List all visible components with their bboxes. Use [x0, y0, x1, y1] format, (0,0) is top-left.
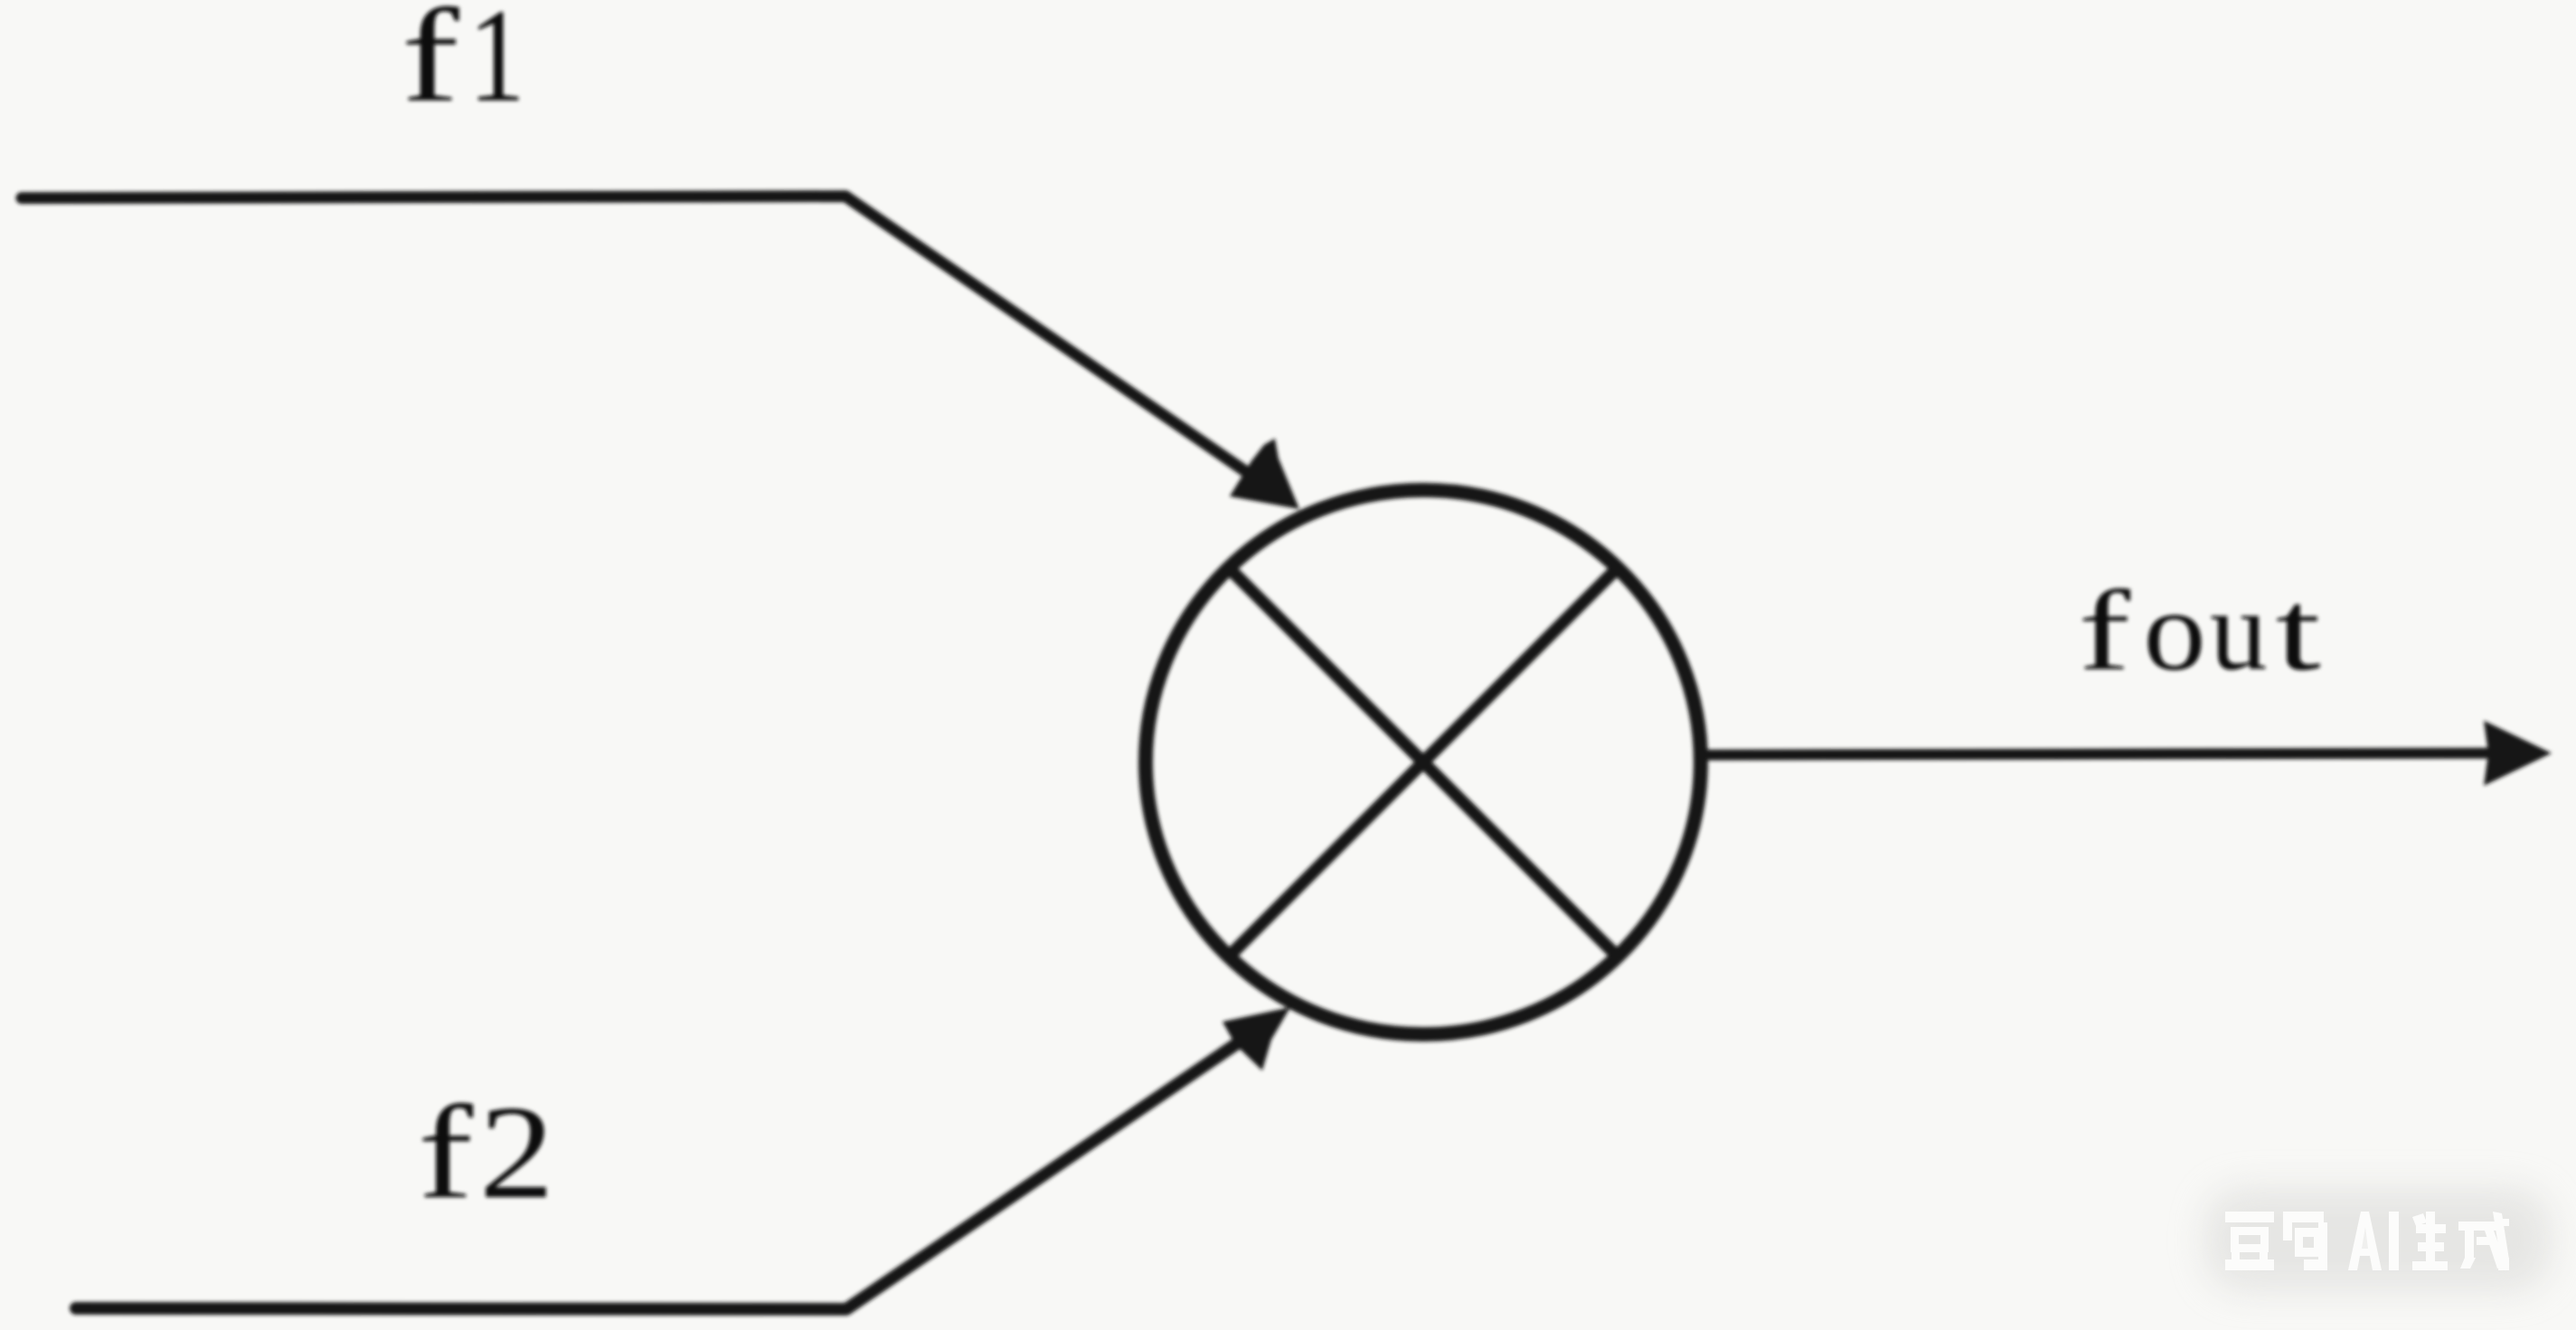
- wire f2 input (horizontal + diagonal into mixer): [76, 1034, 1250, 1309]
- watermark 豆包AI生成 (soft gray glow): [2206, 1189, 2550, 1290]
- svg-text:f: f: [401, 0, 460, 130]
- glyph cheng: [2458, 1212, 2509, 1270]
- wire f1 input (horizontal + diagonal into mixer): [22, 196, 1257, 479]
- svg-text:f: f: [418, 1079, 474, 1227]
- node f2 label: [418, 1078, 554, 1227]
- arrowhead f1: [1230, 439, 1299, 509]
- letter A: [2348, 1212, 2382, 1270]
- node f1 label: [401, 0, 525, 130]
- node fout label: [2079, 567, 2321, 694]
- arrowhead fout: [2484, 721, 2552, 786]
- watermark glyphs (white): [2225, 1212, 2509, 1270]
- svg-text:u: u: [2210, 568, 2268, 694]
- svg-text:f: f: [2079, 567, 2131, 694]
- svg-text:t: t: [2276, 567, 2321, 694]
- wire fout output: [1701, 753, 2492, 755]
- mixer U1 circle: [1146, 490, 1701, 1034]
- mixer X diagonal 1: [1229, 568, 1618, 957]
- glyph sheng: [2412, 1212, 2448, 1270]
- letter I: [2389, 1212, 2399, 1270]
- arrowhead f2: [1222, 1007, 1290, 1071]
- svg-text:1: 1: [468, 0, 525, 129]
- svg-text:o: o: [2144, 567, 2206, 694]
- mixer X diagonal 2: [1229, 568, 1618, 957]
- svg-text:2: 2: [479, 1078, 554, 1226]
- glyph dou: [2225, 1212, 2274, 1270]
- glyph bao: [2283, 1212, 2327, 1270]
